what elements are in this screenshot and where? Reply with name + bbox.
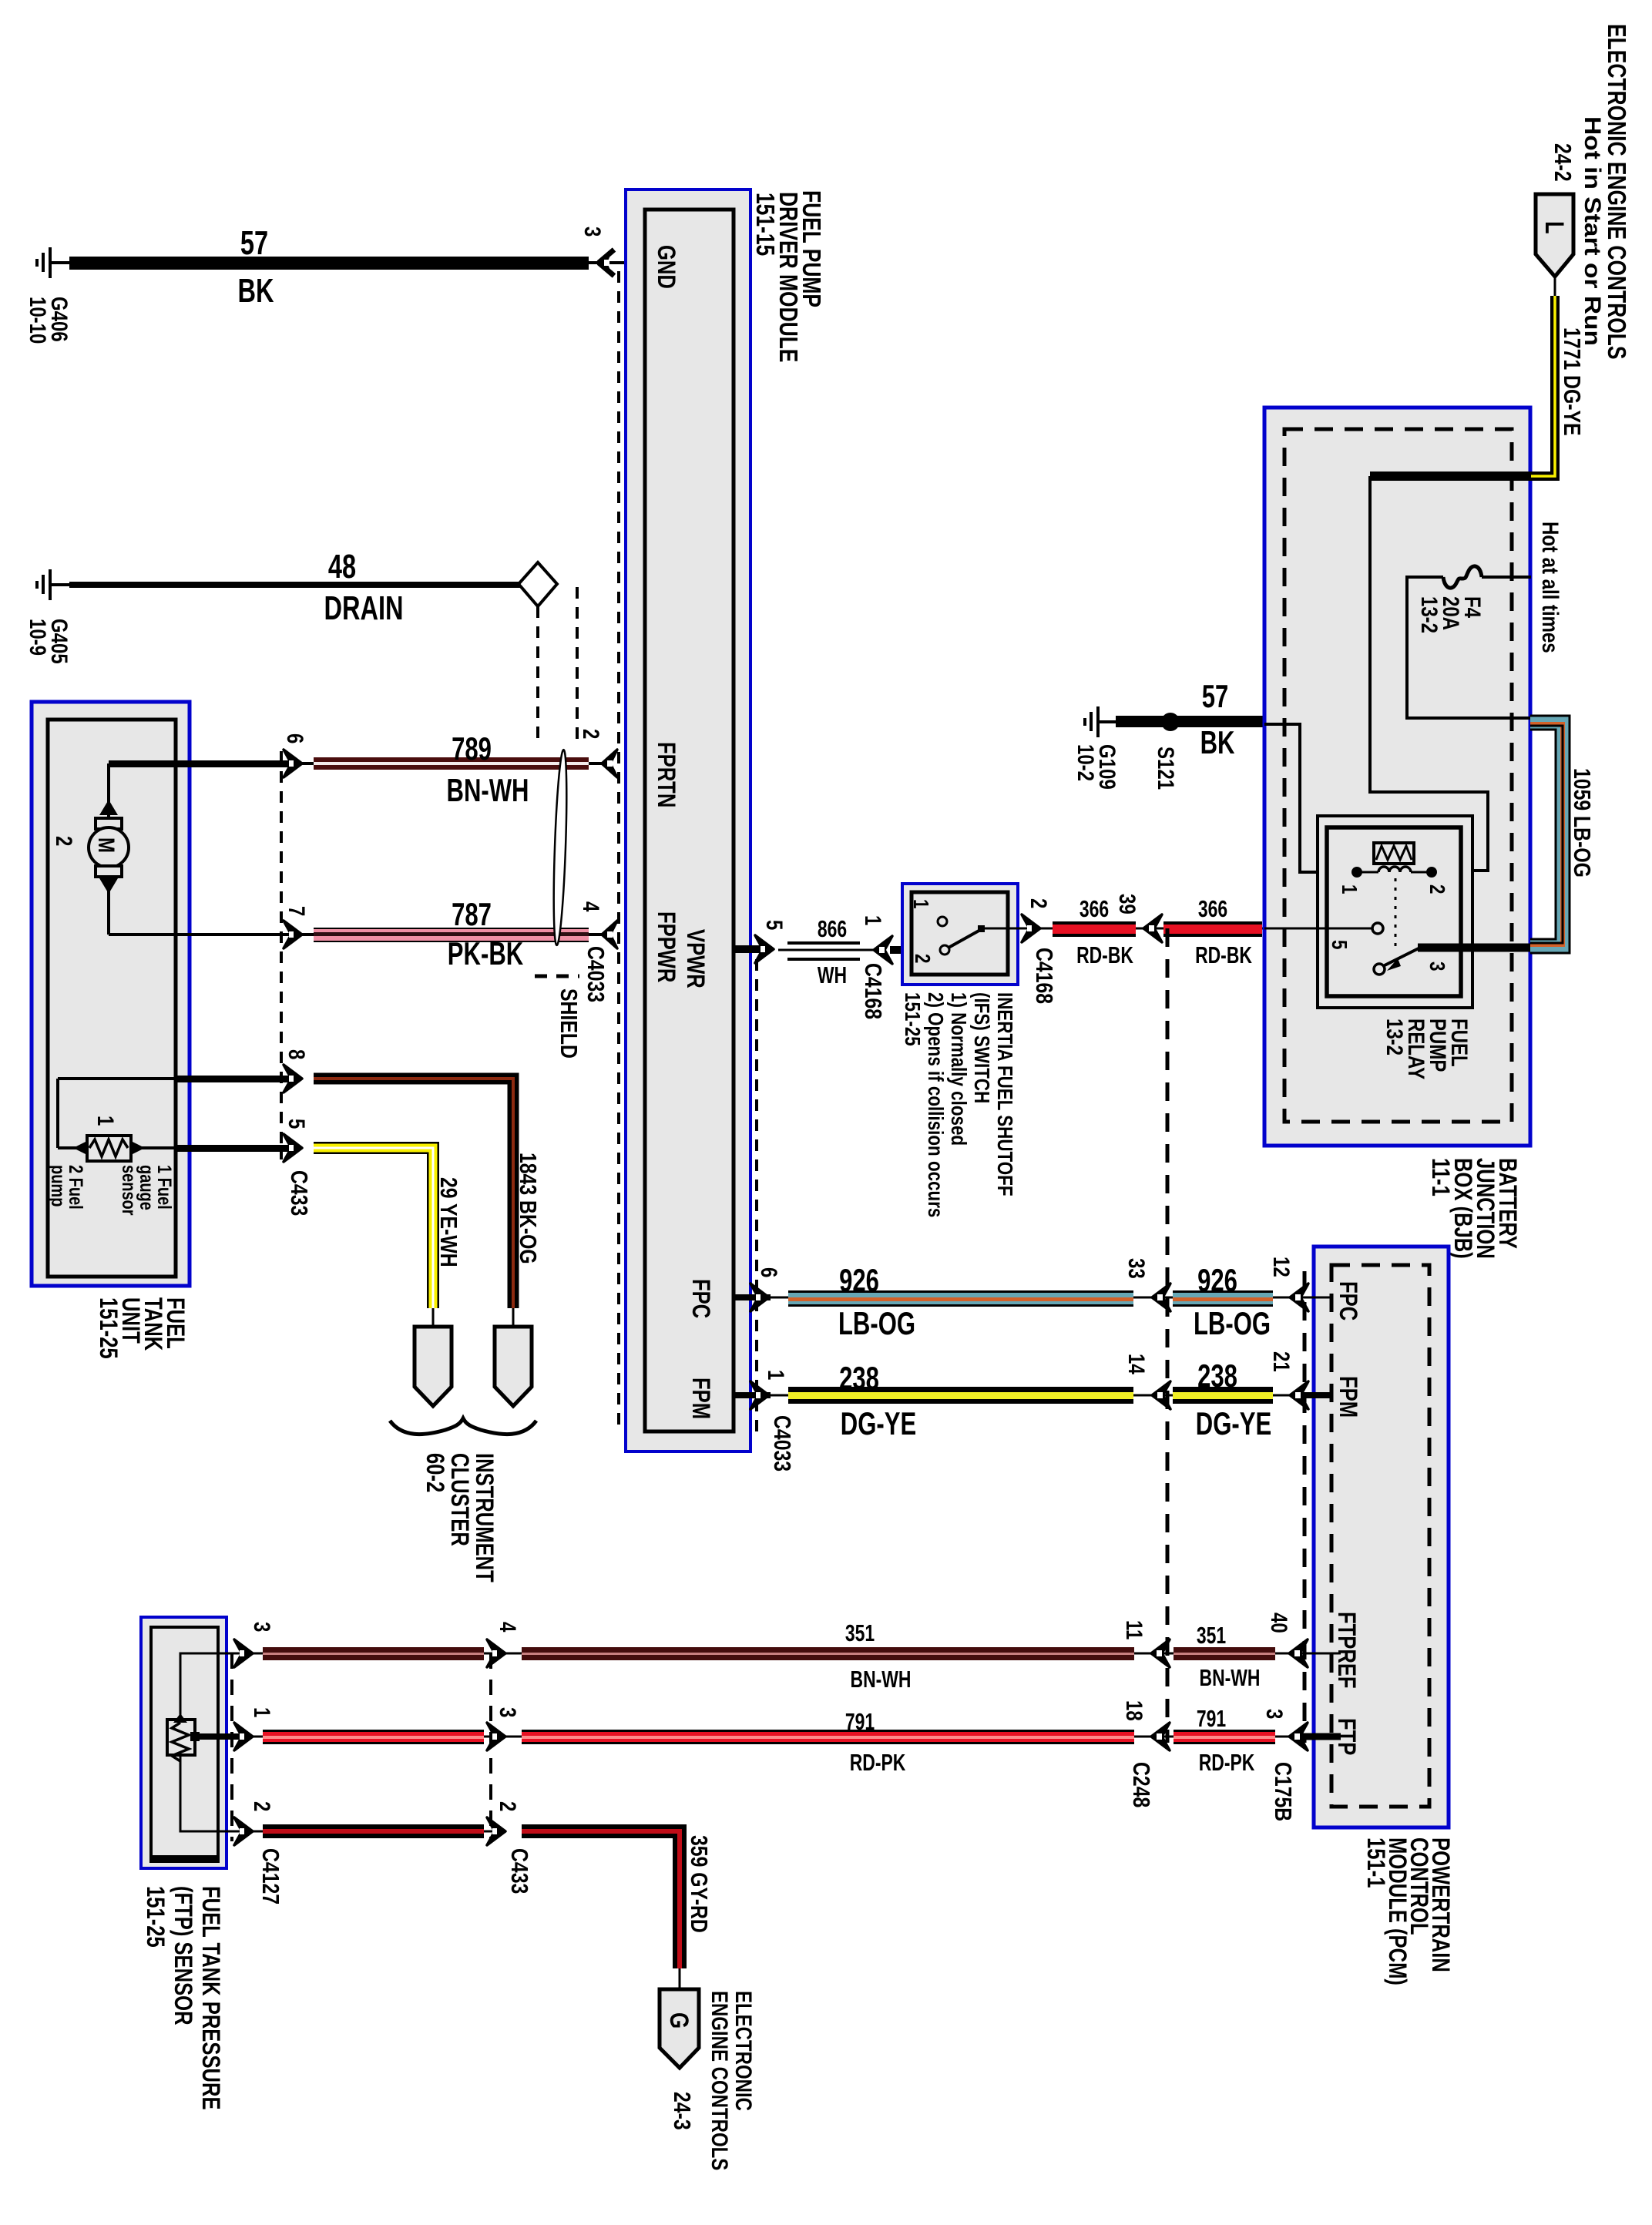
right arrow notches: [240, 760, 1032, 1834]
svg-text:C433: C433: [506, 1848, 532, 1894]
svg-text:57: 57: [1202, 678, 1229, 714]
svg-text:866: 866: [818, 915, 847, 942]
FPC pin6 stub: [734, 1294, 771, 1300]
pin 4 FPPWR arrow: [602, 921, 617, 948]
svg-text:57: 57: [240, 224, 268, 262]
svg-text:18: 18: [1121, 1700, 1147, 1721]
FTP pin3 arrow: [234, 1639, 253, 1667]
shield twisted pair loop: [552, 750, 569, 945]
arrow 18: [1151, 1723, 1170, 1750]
PCM pin12 arrow: [1290, 1284, 1308, 1311]
svg-text:FTPREF: FTPREF: [1332, 1612, 1359, 1689]
wire 791 RD-PK PCM segment: [1162, 1705, 1298, 1776]
svg-text:2: 2: [495, 1801, 521, 1811]
svg-text:RD-PK: RD-PK: [850, 1749, 906, 1776]
svg-text:LB-OG: LB-OG: [838, 1305, 915, 1341]
C433 pin4 arrow: [487, 1639, 505, 1667]
wire 57 BK left: [69, 224, 645, 310]
inertia fuel shutoff switch box: [902, 884, 1036, 985]
FTU pin5 arrow: [284, 1134, 302, 1162]
FTU pin5 wire: [176, 1145, 298, 1152]
svg-text:GND: GND: [652, 245, 679, 289]
svg-text:Hot at all times: Hot at all times: [1537, 522, 1563, 653]
svg-text:3: 3: [1425, 961, 1449, 971]
svg-text:RD-PK: RD-PK: [1199, 1749, 1255, 1776]
dashed C4127 line: [230, 1653, 233, 1841]
svg-text:7: 7: [284, 906, 310, 916]
svg-text:21: 21: [1268, 1351, 1294, 1372]
svg-text:FPM: FPM: [687, 1378, 714, 1419]
svg-text:C4127: C4127: [257, 1848, 284, 1905]
svg-text:C4033: C4033: [583, 946, 609, 1002]
FPM pin1 stub: [734, 1392, 771, 1398]
svg-text:13-2: 13-2: [1416, 596, 1442, 633]
instrument cluster brace: [390, 1418, 536, 1435]
svg-text:RD-BK: RD-BK: [1195, 941, 1252, 968]
fuel pump motor M: [51, 763, 301, 935]
svg-text:C248: C248: [1128, 1762, 1154, 1807]
svg-text:2: 2: [249, 1801, 275, 1811]
svg-text:6: 6: [756, 1267, 782, 1277]
relay coil: [1337, 843, 1449, 894]
FTP sensor resistor: [167, 1713, 248, 1761]
svg-text:C4168: C4168: [860, 963, 886, 1019]
svg-text:12: 12: [1268, 1257, 1294, 1277]
svg-text:Hot in Start or Run: Hot in Start or Run: [1580, 116, 1605, 346]
fuel pump driver module box: [626, 190, 825, 1451]
svg-text:11: 11: [1121, 1620, 1147, 1639]
fuse F4 20A 13-2: [1407, 566, 1531, 718]
svg-text:SHIELD: SHIELD: [556, 988, 582, 1059]
svg-text:FPRTN: FPRTN: [652, 742, 679, 807]
FTU pin6 arrow: [284, 750, 302, 777]
FTP internal loop wire: [180, 1653, 248, 1831]
svg-text:1: 1: [1337, 884, 1361, 894]
wire 359 segment A: [248, 1824, 501, 1838]
PCM pin40 wire: [1300, 1653, 1341, 1655]
powertrain control module PCM box: [1314, 1247, 1449, 1827]
svg-text:FPC: FPC: [687, 1279, 714, 1318]
SHIELD dashed box bottom: [535, 975, 579, 978]
ground G109: [1073, 706, 1120, 790]
svg-text:FPC: FPC: [1334, 1281, 1361, 1321]
svg-text:4: 4: [495, 1622, 521, 1632]
wire 366 RD-BK left segment: [1036, 895, 1147, 968]
wire 926 LB-OG segment 1: [771, 1262, 1156, 1341]
svg-text:FPM: FPM: [1334, 1376, 1361, 1418]
svg-text:INERTIA FUEL SHUTOFF: INERTIA FUEL SHUTOFF: [992, 992, 1016, 1196]
svg-text:4: 4: [578, 901, 604, 911]
arrow 39: [1143, 914, 1162, 942]
svg-text:24-3: 24-3: [669, 2092, 695, 2130]
PCM pin40 arrow: [1289, 1639, 1308, 1667]
svg-text:791: 791: [845, 1708, 875, 1735]
FPC pin6 arrow: [750, 1284, 769, 1311]
pin 2 FPRTN arrow: [602, 750, 617, 777]
svg-text:ELECTRONIC ENGINE CONTROLS: ELECTRONIC ENGINE CONTROLS: [1602, 24, 1630, 360]
arrow 11: [1151, 1639, 1170, 1667]
svg-text:C4168: C4168: [1031, 948, 1057, 1004]
shield diamond: [519, 562, 577, 743]
svg-text:(FTP) SENSOR: (FTP) SENSOR: [169, 1886, 196, 2025]
svg-text:39: 39: [1114, 894, 1140, 914]
wire 1059 LB-OG U-loop: [1530, 723, 1596, 946]
relay switch arm: [1374, 948, 1420, 975]
fuel gauge sensor: [58, 1079, 301, 1161]
VPWR pin5 stub: [734, 945, 771, 953]
PCM pin21 wire: [1301, 1392, 1333, 1398]
wire 57 BK right with splice S121: [1116, 678, 1264, 790]
FTP labels: [141, 1886, 223, 2110]
svg-text:2) Opens if collision occurs: 2) Opens if collision occurs: [923, 992, 947, 1217]
svg-text:BK: BK: [237, 272, 274, 310]
FTP pin1 arrow: [234, 1723, 253, 1750]
svg-text:3: 3: [579, 227, 606, 237]
ground G405: [25, 569, 72, 664]
wire 787 PK-BK: [297, 896, 604, 972]
FTU sensor notes: [47, 1165, 175, 1216]
svg-text:C175B: C175B: [1270, 1762, 1296, 1821]
svg-text:151-25: 151-25: [94, 1297, 121, 1359]
svg-text:1: 1: [249, 1707, 275, 1717]
IFS pin2 arrow right: [1022, 914, 1040, 942]
FTU pin8 wire: [176, 1076, 298, 1082]
svg-text:151-25: 151-25: [900, 992, 924, 1046]
svg-text:DRAIN: DRAIN: [324, 589, 403, 627]
relay labels: [1382, 1019, 1472, 1079]
svg-text:10-2: 10-2: [1073, 744, 1099, 781]
svg-text:1: 1: [908, 899, 932, 908]
svg-text:PK-BK: PK-BK: [448, 935, 524, 972]
wire 789 BN-WH: [297, 730, 604, 808]
svg-text:DG-YE: DG-YE: [1196, 1405, 1271, 1441]
svg-text:M: M: [93, 837, 119, 853]
svg-text:359 GY-RD: 359 GY-RD: [686, 1835, 712, 1933]
svg-text:151-1: 151-1: [1362, 1837, 1388, 1888]
svg-text:238: 238: [1197, 1357, 1237, 1394]
electronic engine controls top labels: [1550, 24, 1630, 360]
svg-text:787: 787: [452, 896, 492, 932]
svg-text:sensor: sensor: [118, 1165, 139, 1216]
svg-text:10-9: 10-9: [25, 619, 51, 656]
connector G pentagon: [660, 1968, 699, 2068]
svg-text:60-2: 60-2: [421, 1453, 448, 1492]
svg-text:L: L: [1540, 221, 1570, 234]
C433 pin3 arrow: [487, 1723, 505, 1750]
svg-text:238: 238: [839, 1360, 879, 1396]
svg-text:8: 8: [284, 1049, 310, 1059]
instrument cluster connector 1: [415, 1308, 452, 1406]
svg-text:BN-WH: BN-WH: [1200, 1664, 1261, 1691]
svg-text:pump: pump: [47, 1165, 69, 1206]
svg-text:926: 926: [839, 1262, 879, 1298]
dashed C433 line bottom: [489, 1653, 492, 1841]
svg-text:BK: BK: [1200, 724, 1235, 760]
arrow 14: [1152, 1381, 1170, 1409]
arrow 33: [1152, 1284, 1170, 1311]
svg-text:351: 351: [845, 1619, 875, 1646]
svg-text:RD-BK: RD-BK: [1076, 941, 1133, 968]
svg-text:48: 48: [328, 548, 356, 586]
instrument cluster label: [421, 1453, 497, 1582]
svg-text:(IFS) SWITCH: (IFS) SWITCH: [969, 992, 993, 1103]
wire 48 DRAIN: [69, 548, 520, 627]
fuel tank pressure sensor box: [141, 1617, 227, 1868]
connector L pentagon: [1536, 194, 1573, 296]
svg-text:5: 5: [284, 1119, 310, 1129]
dashed harness line right of module C4033: [755, 959, 758, 1431]
svg-text:C4033: C4033: [769, 1415, 795, 1472]
long dashed harness line mid: [1166, 928, 1170, 1743]
svg-text:10-10: 10-10: [25, 297, 51, 344]
dashed harness line at PCM C175B: [1303, 1271, 1307, 1743]
svg-text:1) Normally closed: 1) Normally closed: [946, 992, 970, 1146]
svg-text:1771 DG-YE: 1771 DG-YE: [1559, 327, 1585, 436]
relay dotted actuator line: [1395, 878, 1397, 949]
svg-text:FUEL TANK PRESSURE: FUEL TANK PRESSURE: [196, 1886, 223, 2110]
FTP pin2 arrow: [234, 1817, 253, 1845]
svg-text:33: 33: [1123, 1258, 1150, 1279]
wire 366 RD-BK right segment: [1154, 895, 1264, 968]
C4168 arrow pin1: [874, 936, 892, 964]
wire 1771 DG-YE: [1531, 296, 1586, 476]
svg-text:40: 40: [1266, 1613, 1292, 1633]
svg-text:11-1: 11-1: [1426, 1158, 1453, 1196]
PCM pin3 wire: [1300, 1733, 1341, 1740]
svg-text:366: 366: [1198, 895, 1227, 922]
FTU pin8 arrow: [284, 1065, 302, 1092]
svg-text:2: 2: [1425, 884, 1449, 894]
svg-text:926: 926: [1197, 1262, 1237, 1298]
pin 3 arrow GND: [579, 227, 614, 277]
svg-text:BN-WH: BN-WH: [851, 1666, 912, 1693]
IFS switch stub: [890, 946, 912, 954]
svg-text:S121: S121: [1153, 747, 1179, 790]
wire 926 LB-OG segment 2: [1163, 1262, 1294, 1341]
svg-text:366: 366: [1080, 895, 1109, 922]
svg-text:13-2: 13-2: [1382, 1019, 1408, 1055]
svg-text:6: 6: [282, 733, 308, 743]
wire 29 YE-WH: [314, 1148, 462, 1308]
svg-text:C433: C433: [286, 1170, 312, 1216]
svg-text:1059 LB-OG: 1059 LB-OG: [1569, 768, 1595, 878]
svg-text:29 YE-WH: 29 YE-WH: [435, 1177, 462, 1267]
wire 351 BN-WH long segment: [501, 1619, 1160, 1693]
svg-text:FPPWR: FPPWR: [652, 911, 679, 982]
svg-text:DG-YE: DG-YE: [841, 1405, 916, 1441]
svg-text:WH: WH: [818, 961, 847, 988]
IFS labels: [900, 992, 1016, 1217]
C433 pin2 arrow: [487, 1817, 505, 1845]
svg-text:5: 5: [1327, 940, 1351, 949]
svg-text:2: 2: [1026, 898, 1052, 908]
svg-text:VPWR: VPWR: [681, 929, 708, 988]
wire 791 segment A: [248, 1730, 501, 1744]
wire inside BJB from 57 BK to relay coil: [1264, 724, 1354, 872]
wire 351 BN-WH PCM segment: [1162, 1622, 1298, 1691]
svg-text:351: 351: [1197, 1622, 1226, 1649]
svg-text:24-2: 24-2: [1550, 143, 1576, 182]
wire 1843 BK-OG: [314, 1079, 542, 1308]
FTU pin7 arrow: [284, 921, 302, 948]
svg-text:LB-OG: LB-OG: [1194, 1305, 1271, 1341]
wire 238 DG-YE segment 2: [1163, 1357, 1294, 1441]
BJB labels: [1426, 1158, 1520, 1259]
wire 359 GY-RD with corner: [522, 1831, 713, 1968]
electronic engine controls bottom labels: [669, 1991, 757, 2170]
VPWR pin5 arrow: [755, 935, 774, 963]
svg-text:1843 BK-OG: 1843 BK-OG: [515, 1153, 541, 1264]
PCM pin3 FTP arrow: [1289, 1723, 1308, 1750]
svg-text:151-25: 151-25: [141, 1886, 168, 1948]
svg-text:BN-WH: BN-WH: [446, 772, 529, 808]
svg-text:2: 2: [578, 729, 604, 739]
dashed harness line left of module C4033: [617, 271, 620, 1431]
svg-text:CLUSTER: CLUSTER: [445, 1453, 472, 1546]
svg-text:5: 5: [761, 920, 787, 930]
arrow notches: [604, 260, 1301, 1740]
svg-text:3: 3: [249, 1622, 275, 1632]
fuel tank unit box: [32, 702, 190, 1359]
wire 866 WH: [778, 915, 878, 988]
wire 351 segment A: [248, 1647, 501, 1660]
FPM pin1 arrow: [750, 1381, 769, 1409]
FTU pin6 wire: [109, 760, 298, 767]
svg-text:789: 789: [452, 730, 492, 767]
svg-text:3: 3: [1261, 1709, 1288, 1719]
svg-text:1: 1: [763, 1370, 789, 1380]
svg-text:3: 3: [495, 1707, 521, 1717]
wire inside BJB 1771 feed to coil: [1370, 472, 1531, 481]
battery junction box BJB: [1264, 408, 1530, 1146]
svg-text:1: 1: [860, 915, 886, 925]
wire 791 RD-PK long segment: [501, 1708, 1160, 1776]
PCM labels: [1362, 1837, 1453, 1985]
svg-text:2: 2: [51, 836, 77, 846]
svg-text:2: 2: [910, 954, 934, 963]
svg-text:G: G: [664, 2012, 694, 2029]
PCM pin21 arrow: [1290, 1381, 1308, 1409]
svg-text:INSTRUMENT: INSTRUMENT: [470, 1453, 497, 1582]
relay pin5: [1264, 923, 1383, 949]
relay pin3 output: [1418, 948, 1532, 971]
svg-text:ENGINE CONTROLS: ENGINE CONTROLS: [707, 1991, 733, 2170]
svg-text:ELECTRONIC: ELECTRONIC: [730, 1991, 757, 2111]
ground G406: [25, 247, 72, 344]
wire 238 DG-YE segment 1: [771, 1360, 1156, 1441]
svg-text:791: 791: [1197, 1705, 1226, 1732]
instrument cluster connector 2: [495, 1308, 532, 1406]
PCM pin12 wire: [1301, 1297, 1333, 1299]
svg-text:1: 1: [92, 1116, 119, 1126]
svg-text:14: 14: [1123, 1354, 1150, 1374]
fuel pump relay box: [1318, 816, 1472, 1008]
dashed C433 line left: [280, 751, 283, 1159]
svg-text:151-15: 151-15: [750, 193, 778, 256]
